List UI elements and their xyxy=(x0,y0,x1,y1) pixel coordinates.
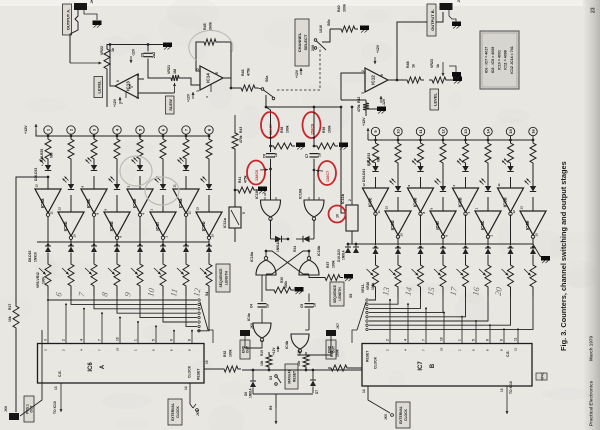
svg-text:13: 13 xyxy=(196,207,200,211)
red annotation ellipse 15/IC8 xyxy=(303,112,321,140)
diode D13 1N916 xyxy=(160,244,166,261)
svg-text:+12V: +12V xyxy=(295,69,299,78)
+12V rail left xyxy=(24,124,209,136)
svg-text:VR21: VR21 xyxy=(167,65,171,74)
svg-text:IC6 - IC7 = 4017: IC6 - IC7 = 4017 xyxy=(485,47,489,73)
svg-text:S6a: S6a xyxy=(265,75,269,82)
svg-text:S3: S3 xyxy=(269,376,273,380)
jack JK4 xyxy=(196,410,200,416)
svg-text:LENGTH: LENGTH xyxy=(225,270,229,284)
pot VR9 100k xyxy=(131,261,143,296)
diode D20 1N914 xyxy=(463,246,469,262)
svg-text:13: 13 xyxy=(54,386,58,390)
svg-text:475k: 475k xyxy=(247,68,251,76)
LED D40 xyxy=(502,159,514,189)
resistor R17 10k xyxy=(8,303,19,412)
svg-text:2X8: 2X8 xyxy=(311,45,315,51)
svg-text:4: 4 xyxy=(80,339,84,341)
svg-text:470k: 470k xyxy=(357,104,361,112)
svg-text:13: 13 xyxy=(463,129,468,134)
svg-text:CLOCK: CLOCK xyxy=(188,365,192,378)
LED D26 xyxy=(40,158,52,190)
svg-text:15: 15 xyxy=(425,286,436,296)
capacitor C5 1n xyxy=(300,294,317,331)
page right edge shading xyxy=(583,0,600,430)
svg-text:VR20: VR20 xyxy=(366,282,370,290)
svg-text:13: 13 xyxy=(500,388,504,392)
svg-text:C8: C8 xyxy=(141,53,145,58)
svg-text:14: 14 xyxy=(486,129,491,134)
-12V arrow IC12 xyxy=(380,96,387,106)
svg-text:IC6: IC6 xyxy=(88,362,94,372)
svg-text:D8-D15: D8-D15 xyxy=(28,250,32,262)
label TO IC10 left xyxy=(53,401,57,414)
node 10 circled xyxy=(394,127,402,141)
svg-text:R15: R15 xyxy=(260,350,264,356)
svg-text:12: 12 xyxy=(441,129,446,134)
svg-text:S6b: S6b xyxy=(327,19,331,26)
LED D27 xyxy=(63,162,75,212)
wire IC12 input xyxy=(341,73,365,100)
svg-text:11: 11 xyxy=(514,347,518,351)
resistor R42 470k xyxy=(341,97,377,116)
svg-text:VR13-: VR13- xyxy=(361,284,365,293)
ground JK10 xyxy=(452,22,461,29)
diode coupling left xyxy=(271,234,289,242)
svg-text:6: 6 xyxy=(170,339,174,341)
svg-text:6: 6 xyxy=(215,72,219,74)
svg-text:R37: R37 xyxy=(326,262,330,268)
svg-text:IC9b: IC9b xyxy=(201,221,206,231)
output jack label OUTPUT A xyxy=(63,4,72,35)
label LEVEL right xyxy=(430,89,439,110)
ground R41 xyxy=(258,187,267,194)
svg-text:IC9e: IC9e xyxy=(413,197,418,207)
resistor R39 100k xyxy=(313,125,338,149)
page top light strip xyxy=(0,0,600,6)
pencil number 6 xyxy=(53,291,64,298)
svg-text:D26-D33: D26-D33 xyxy=(34,168,38,181)
diode D11 1N916 xyxy=(114,244,120,261)
diode D16 1N914 xyxy=(373,246,379,262)
svg-text:IC10c: IC10c xyxy=(255,189,259,199)
IC7 clock pin xyxy=(362,386,393,420)
svg-text:15: 15 xyxy=(508,129,513,134)
wire chain2 vertical xyxy=(313,107,315,146)
svg-text:IC8d: IC8d xyxy=(109,221,114,231)
svg-text:+12V: +12V xyxy=(272,347,276,355)
-12V arrow IC13 xyxy=(130,48,136,63)
pencil number 10 xyxy=(145,287,156,298)
svg-text:100k: 100k xyxy=(42,276,46,284)
svg-text:1n: 1n xyxy=(313,303,317,307)
resistor R36 500k xyxy=(266,275,294,293)
IC6 pin numbers inside xyxy=(44,347,192,351)
svg-text:10: 10 xyxy=(396,129,401,134)
svg-text:IC10a: IC10a xyxy=(250,251,254,262)
svg-text:CLOCK: CLOCK xyxy=(176,406,180,418)
svg-text:15: 15 xyxy=(205,360,209,364)
svg-text:1k: 1k xyxy=(111,48,115,52)
pot VR7 100k xyxy=(85,261,97,296)
pot VR5 100k xyxy=(39,261,51,296)
reset bus wires xyxy=(242,369,362,408)
label LEVEL xyxy=(94,77,103,98)
svg-text:R34: R34 xyxy=(293,246,297,252)
buffer IC9f xyxy=(430,208,457,246)
pencil number 9 xyxy=(122,291,133,298)
wire IC10c out xyxy=(270,220,272,235)
svg-text:JK7: JK7 xyxy=(336,323,340,329)
bus wire top xyxy=(265,106,341,109)
buffer IC9a xyxy=(173,184,200,245)
resistor R40 100k xyxy=(322,4,358,42)
svg-text:IC8c: IC8c xyxy=(86,198,91,208)
ground C8 rail xyxy=(163,43,172,50)
jack JK8 xyxy=(4,330,42,420)
svg-text:10: 10 xyxy=(400,233,404,237)
label CHANNEL SELECT xyxy=(295,19,309,66)
svg-text:IC5c: IC5c xyxy=(480,220,485,230)
dashed link S6a-S6b xyxy=(277,47,320,90)
wire VR22 top feedback rail xyxy=(107,43,163,46)
buffer IC9d xyxy=(385,206,412,245)
svg-text:+12V: +12V xyxy=(376,44,380,53)
wire VR21 to IC14 xyxy=(182,78,200,85)
svg-text:-12V: -12V xyxy=(382,98,386,106)
sequence wiring left xyxy=(48,296,209,332)
svg-text:IC12 -IC14 = 741: IC12 -IC14 = 741 xyxy=(510,46,514,73)
diode coupling right xyxy=(287,234,314,243)
svg-text:Fig. 3. Counters, channel swit: Fig. 3. Counters, channel switching and … xyxy=(559,161,568,351)
pot VR15 100k xyxy=(412,262,424,297)
pot VR14 100k xyxy=(389,262,401,297)
label RP41 xyxy=(536,372,547,380)
buffer IC8d xyxy=(104,209,131,246)
resistor R25 680 xyxy=(206,136,212,162)
svg-text:13/IC6: 13/IC6 xyxy=(255,170,259,181)
svg-text:5: 5 xyxy=(242,212,246,214)
red annotation ellipse 13/IC6 xyxy=(247,161,268,185)
node 16 circled xyxy=(529,127,537,141)
svg-text:12: 12 xyxy=(512,210,516,214)
svg-text:IC14: IC14 xyxy=(206,73,211,83)
svg-text:S5: S5 xyxy=(349,294,353,298)
svg-text:C.E.: C.E. xyxy=(58,370,62,377)
NOR gate IC10d xyxy=(299,188,325,221)
svg-text:1N914A: 1N914A xyxy=(276,240,280,252)
pot VR6 100k xyxy=(62,261,74,296)
IC6 clock pin xyxy=(184,383,198,411)
resistor R24 680 xyxy=(183,136,189,162)
resistor R32 100k xyxy=(204,349,241,372)
svg-text:R45: R45 xyxy=(203,23,207,30)
capacitor C8 2u2 xyxy=(141,45,169,79)
ground right diode rail xyxy=(533,244,550,263)
op-amp IC12 xyxy=(361,68,388,94)
svg-text:1n: 1n xyxy=(266,304,270,308)
svg-text:IC8a: IC8a xyxy=(40,198,45,208)
svg-text:C6: C6 xyxy=(263,154,267,158)
LED D28 xyxy=(86,158,98,190)
svg-text:100k: 100k xyxy=(371,282,375,290)
svg-text:1: 1 xyxy=(458,339,462,341)
svg-text:10: 10 xyxy=(116,337,120,341)
capacitor C7 1n xyxy=(305,153,322,200)
IC7 pin stubs xyxy=(386,299,520,343)
svg-text:11: 11 xyxy=(50,211,54,215)
LED D36 xyxy=(412,159,424,189)
svg-text:OUTPUT B.: OUTPUT B. xyxy=(430,9,435,31)
wire IC4c out xyxy=(245,336,262,348)
svg-text:IC5e: IC5e xyxy=(525,220,530,230)
pot VR17 100k xyxy=(457,262,469,297)
pot VR20 100k xyxy=(524,262,536,297)
diode D22 1N914 xyxy=(508,246,514,262)
wire to R17 xyxy=(16,176,49,303)
svg-text:March 1979: March 1979 xyxy=(589,336,594,361)
svg-text:TO IC10: TO IC10 xyxy=(53,401,57,414)
label VR13-VR20 100k xyxy=(361,282,375,293)
pot VR13 100k xyxy=(367,262,379,297)
svg-text:D6: D6 xyxy=(244,392,248,396)
pot VR12 100k xyxy=(200,261,212,296)
node 3 circled xyxy=(90,126,98,138)
diode D19 1N914 xyxy=(440,246,446,262)
svg-text:R41: R41 xyxy=(238,177,242,183)
label D34-D41 xyxy=(362,169,366,182)
node 2 circled xyxy=(67,126,75,138)
LED D31 xyxy=(155,162,167,212)
pencil arc annotation xyxy=(189,30,233,60)
svg-text:SELECT: SELECT xyxy=(303,34,308,50)
svg-text:R16: R16 xyxy=(297,350,301,356)
svg-text:9: 9 xyxy=(188,339,192,341)
svg-text:IC13: IC13 xyxy=(125,81,130,91)
svg-text:R35: R35 xyxy=(330,351,334,357)
wire to IC11b pin2 xyxy=(351,106,354,205)
svg-text:260k: 260k xyxy=(209,22,213,30)
+12V arrow reset xyxy=(272,346,280,355)
svg-text:5: 5 xyxy=(472,339,476,341)
pot VR18 100k xyxy=(479,262,491,297)
svg-text:IC11b: IC11b xyxy=(341,193,345,204)
LED D39 xyxy=(480,166,492,211)
IC type table xyxy=(480,31,519,89)
svg-text:IC5d: IC5d xyxy=(503,197,508,207)
svg-text:13: 13 xyxy=(385,206,389,210)
jack JK10 xyxy=(440,0,462,22)
svg-text:SEQUENCE: SEQUENCE xyxy=(219,268,223,288)
svg-text:12: 12 xyxy=(188,211,192,215)
pencil number 11 xyxy=(168,288,179,297)
svg-text:1N914: 1N914 xyxy=(342,250,346,260)
+12V arrow IC13 xyxy=(113,84,134,107)
svg-text:7: 7 xyxy=(422,339,426,341)
buffer IC5c xyxy=(475,208,502,246)
IC7 pin numbers inside xyxy=(386,347,518,351)
svg-text:JK10: JK10 xyxy=(457,0,461,3)
node 9 circled xyxy=(371,127,379,141)
svg-text:4: 4 xyxy=(404,339,408,341)
pot VR8 100k xyxy=(108,261,120,296)
diodes D16-D23 1N914 xyxy=(337,243,359,262)
pot VR10 100k xyxy=(154,261,166,296)
svg-text:11: 11 xyxy=(377,210,381,214)
red annotation ellipse 13/IC7 xyxy=(316,161,336,185)
svg-text:1M: 1M xyxy=(173,69,177,74)
svg-text:2: 2 xyxy=(136,74,140,76)
svg-text:3: 3 xyxy=(136,97,140,99)
pencil number 7 xyxy=(76,291,87,298)
resistor R18 680 xyxy=(45,136,51,162)
red annotation ellipse 15/IC7 xyxy=(261,112,279,140)
svg-text:EXTERNAL: EXTERNAL xyxy=(399,406,403,424)
buffer IC9b xyxy=(196,207,223,245)
pencil scribble 2 xyxy=(145,177,179,205)
label SEQUENCE LENGTH left xyxy=(216,264,230,292)
pencil scribble 1 xyxy=(120,156,152,186)
svg-text:12: 12 xyxy=(35,184,39,188)
magazine credit xyxy=(589,336,594,426)
svg-text:IC5b: IC5b xyxy=(458,197,463,207)
svg-text:R48: R48 xyxy=(406,61,410,68)
svg-text:JK5: JK5 xyxy=(384,414,388,420)
ground R36 xyxy=(295,287,304,294)
svg-text:10: 10 xyxy=(116,347,120,351)
svg-text:1k: 1k xyxy=(436,64,440,68)
LED D32 xyxy=(178,158,190,190)
resistor R20 680 xyxy=(91,136,97,162)
resistor R31 680 xyxy=(485,140,491,166)
svg-text:CHANNEL: CHANNEL xyxy=(297,32,302,52)
svg-text:100k: 100k xyxy=(336,349,340,357)
switch S6a xyxy=(258,75,275,100)
svg-text:13/IC7: 13/IC7 xyxy=(326,171,330,182)
label VR5-VR12 100k xyxy=(36,272,46,288)
svg-text:10: 10 xyxy=(336,214,340,218)
svg-text:RESET: RESET xyxy=(293,371,297,382)
svg-text:IC10d: IC10d xyxy=(299,188,303,199)
svg-text:7: 7 xyxy=(98,339,102,341)
diode D8 1N916 xyxy=(45,244,51,261)
pencil number right 16 xyxy=(470,286,481,297)
op-amp IC14 xyxy=(196,66,223,92)
svg-text:CLOCK: CLOCK xyxy=(404,409,408,421)
svg-text:100k: 100k xyxy=(343,4,347,12)
svg-text:OUTPUT A.: OUTPUT A. xyxy=(66,9,71,30)
svg-text:1k: 1k xyxy=(412,64,416,68)
resistor R41 475k xyxy=(234,175,257,193)
node 5 circled xyxy=(136,126,144,138)
resistor R37 100k xyxy=(309,260,343,280)
pencil number right 13 xyxy=(380,286,391,296)
svg-text:16: 16 xyxy=(531,129,536,134)
LED D37 xyxy=(435,166,447,211)
svg-text:D16-D23: D16-D23 xyxy=(337,249,341,262)
NOR gate IC10a xyxy=(250,251,276,275)
svg-text:10: 10 xyxy=(440,347,444,351)
buffer IC8f xyxy=(150,209,177,246)
NOR gate IC4b xyxy=(285,330,309,352)
IC7 CE pin arrow xyxy=(500,381,513,414)
svg-text:A: A xyxy=(100,364,106,369)
svg-text:R43: R43 xyxy=(239,127,243,133)
arrow R9 xyxy=(269,406,278,424)
svg-text:C5: C5 xyxy=(300,304,304,308)
svg-text:B: B xyxy=(430,363,436,368)
svg-text:D7: D7 xyxy=(315,390,319,394)
svg-text:IC11 = 4098: IC11 = 4098 xyxy=(504,50,508,69)
svg-text:VR5-VR12: VR5-VR12 xyxy=(36,272,40,288)
svg-text:10k: 10k xyxy=(260,360,264,366)
resistor R26 680 xyxy=(373,140,379,166)
node 6 circled xyxy=(159,126,167,138)
svg-text:SLEW: SLEW xyxy=(168,99,173,111)
svg-text:R17: R17 xyxy=(8,304,12,310)
diode rail left xyxy=(37,241,209,243)
svg-text:10: 10 xyxy=(440,337,444,341)
diode D9 1N916 xyxy=(68,244,74,261)
NOR gate IC4c xyxy=(247,313,271,342)
ground R37 xyxy=(344,274,353,281)
svg-text:10: 10 xyxy=(73,234,77,238)
diode D21 1N914 xyxy=(485,246,491,262)
labels latch parts xyxy=(276,240,297,252)
svg-text:IC10b: IC10b xyxy=(317,245,321,256)
svg-text:CLOCK: CLOCK xyxy=(374,356,378,369)
wire VR22 bottom xyxy=(106,72,108,107)
pencil number right 20 xyxy=(493,286,504,297)
LED D33 xyxy=(201,162,213,212)
svg-text:10: 10 xyxy=(263,192,267,196)
resistor R21 680 xyxy=(114,136,120,162)
svg-text:IC11a: IC11a xyxy=(223,217,227,228)
label EXTERNAL CLOCK left xyxy=(168,399,182,425)
node 7 circled xyxy=(182,126,190,138)
diode D6 1N914 xyxy=(244,370,256,398)
buffer IC5d xyxy=(497,183,524,245)
wire long vertical to IC11b pin10 xyxy=(340,106,346,213)
resistor R38 100k xyxy=(269,125,295,149)
svg-text:LENGTH: LENGTH xyxy=(338,287,342,301)
ground R40 xyxy=(360,26,369,33)
+12V arrow IC14 xyxy=(187,84,212,102)
pencil number right 14 xyxy=(403,286,414,297)
ground mid right xyxy=(449,66,461,79)
monostable IC11b xyxy=(341,193,358,244)
LED D35 xyxy=(390,166,402,211)
label POS.1 OUT xyxy=(24,396,34,422)
svg-text:IC4b: IC4b xyxy=(285,340,289,349)
svg-text:2: 2 xyxy=(386,339,390,341)
label 1X16 xyxy=(319,25,323,33)
svg-text:S4: S4 xyxy=(205,292,209,296)
svg-text:IC8b: IC8b xyxy=(63,221,68,231)
LED D38 xyxy=(457,159,469,189)
svg-text:5: 5 xyxy=(152,339,156,341)
wire S6a pole down xyxy=(265,95,267,107)
resistor R27 680 xyxy=(395,140,401,166)
svg-text:12: 12 xyxy=(362,183,366,187)
resistor R30 680 xyxy=(463,140,469,166)
latch cross wiring xyxy=(265,250,311,274)
diode D14 1N916 xyxy=(183,244,189,261)
svg-text:IC9d: IC9d xyxy=(390,220,395,230)
svg-text:11: 11 xyxy=(173,184,177,188)
potentiometer VR23 1k xyxy=(429,59,449,83)
resistor R33 680 xyxy=(530,140,536,166)
